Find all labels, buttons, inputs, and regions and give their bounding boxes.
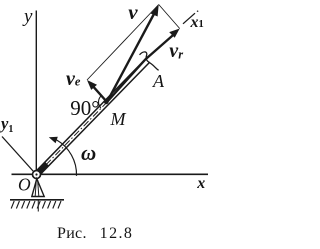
tick at A (rod end squiggle) [140, 52, 159, 70]
vector vr [107, 34, 175, 102]
x1 axis continuation dash [183, 13, 195, 24]
ground hatching [11, 201, 61, 209]
svg-text:ω: ω [81, 141, 96, 165]
rod OA lower edge [38, 62, 149, 176]
x axis [12, 173, 209, 175]
svg-text:O: O [18, 175, 31, 195]
svg-text:A: A [152, 71, 165, 91]
svg-text:90°: 90° [70, 96, 99, 120]
90 degree arc at M [99, 96, 101, 108]
vector ve [92, 85, 107, 102]
point M dot [104, 99, 109, 104]
small vertical mark under support [37, 201, 39, 212]
svg-text:x: x [196, 175, 205, 192]
parallelogram side ve-tip to v-tip [87, 5, 159, 81]
y1 axis [2, 137, 34, 173]
parallelogram side v-tip to vr-tip [159, 5, 180, 29]
ground line [10, 199, 64, 201]
svg-text:M: M [110, 109, 127, 129]
vector v [107, 12, 155, 102]
svg-text:y: y [22, 6, 33, 27]
support triangle [32, 179, 44, 197]
y axis [35, 11, 37, 175]
svg-text:v: v [128, 0, 138, 24]
x1 axis dot [197, 10, 199, 12]
svg-text:Рис. 12.8: Рис. 12.8 [57, 225, 133, 242]
rod OA upper edge [35, 58, 147, 172]
omega arc arrow [57, 140, 77, 176]
rod root shading at pivot [38, 164, 48, 174]
rod centerline x1-axis dash-dot [37, 103, 107, 175]
pivot circle at O [33, 171, 41, 179]
